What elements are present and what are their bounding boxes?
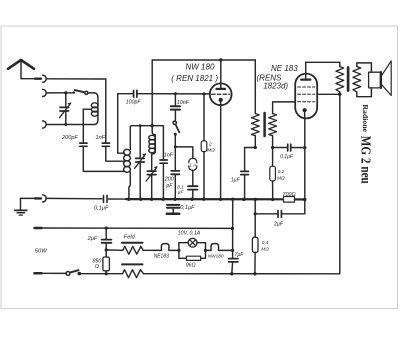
mains pin 1 (35, 227, 42, 230)
node lamp column (190, 198, 193, 201)
node varcap2 bottom (139, 198, 142, 201)
svg-text:pF: pF (165, 183, 173, 189)
svg-text:1 A: 1 A (190, 162, 196, 167)
svg-text:96Ω: 96Ω (186, 263, 196, 269)
tap wire from L1 to 200pF column (83, 108, 91, 110)
node 200pF column (173, 198, 176, 201)
loudspeaker (369, 61, 392, 96)
svg-text:10nF: 10nF (177, 100, 190, 106)
tube U2 NE 183 (RENS 1823d) (295, 62, 317, 118)
node mains column (231, 198, 234, 201)
svg-text:100pF: 100pF (126, 100, 142, 106)
node 0,2M column (271, 198, 274, 201)
wire primary bottom / B+ column (339, 92, 341, 274)
node tube2 cathode return (303, 198, 306, 201)
wire jack1 to 1nF column (46, 78, 106, 80)
heater NE183 (bump) (161, 244, 169, 251)
resistor 2 MOhm (grid leak) (201, 94, 207, 199)
jack J1 (antenna socket, plugged) (35, 75, 46, 82)
chassis cap 0,1uF below bus (167, 205, 179, 214)
resistor 850 Ohm (103, 250, 110, 274)
interstage transformer core (263, 113, 266, 136)
variable capacitor C-feedback (146, 166, 158, 199)
capacitor 2uF (cathode bypass) (255, 211, 305, 218)
svg-text:( REN 1821 ): ( REN 1821 ) (171, 74, 218, 83)
dial lamp bridge (177, 238, 207, 260)
svg-text:MΩ: MΩ (207, 148, 215, 154)
tube U1 NW 180 (REN1821) (210, 60, 232, 199)
svg-text:NE 183: NE 183 (271, 64, 298, 73)
svg-text:0,4: 0,4 (262, 240, 269, 246)
svg-text:NW180: NW180 (208, 253, 224, 258)
svg-text:1µF: 1µF (231, 178, 241, 184)
smoothing choke core bar (122, 263, 143, 265)
switch S2 (173, 121, 179, 147)
coil L2 (detector coil) (124, 126, 153, 200)
node lamp branch (174, 145, 177, 148)
svg-text:1nF: 1nF (96, 135, 106, 141)
node 1uF column (242, 198, 245, 201)
smoothing choke (zigzag on bottom wire) (123, 270, 144, 278)
svg-text:50W: 50W (35, 249, 47, 255)
main ground bus (109, 198, 127, 200)
node feedback junction (151, 124, 154, 127)
svg-text:Ω: Ω (95, 264, 99, 270)
node 10nF branch (174, 92, 177, 95)
variable capacitor C-tune1 (60, 93, 72, 125)
mains column x=232.5 (232, 199, 234, 258)
mains wire 1 (42, 227, 232, 229)
wire tube2 anode to output transformer (306, 62, 340, 66)
wire tube2 cathode down (304, 118, 306, 213)
wire winding1 bottom to 1uF (254, 136, 256, 148)
node varcap1 top (64, 91, 67, 94)
svg-text:2µF: 2µF (273, 221, 284, 227)
node 1nF column (162, 198, 165, 201)
wire tube2 screen to transformer (317, 93, 340, 95)
heater NW180 (bump) (206, 249, 212, 251)
antenna (8, 60, 35, 79)
svg-text:7µF: 7µF (235, 252, 245, 258)
wire jack2 to switch (46, 92, 73, 94)
capacitor 200pF (antenna) (80, 109, 124, 171)
capacitor 100pF (134, 90, 137, 97)
interstage transformer winding 2 (269, 114, 277, 136)
capacitor 7uF (229, 259, 238, 274)
jack J2 (43, 89, 47, 96)
wire 100pF branch down to coil2 tap (118, 94, 125, 154)
field coil zigzag (106, 249, 123, 251)
svg-text:0,1µF: 0,1µF (280, 154, 294, 160)
svg-text:10V, 0,1A: 10V, 0,1A (178, 231, 201, 237)
wire secondary to speaker (357, 63, 372, 72)
capacitor 0,1uF (series in bus) (104, 195, 108, 202)
output transformer secondary (353, 67, 361, 92)
switch S1 (73, 90, 95, 94)
resistor 0,2 MOhm (270, 148, 276, 200)
coil L3 (feedback coil) (149, 126, 156, 171)
svg-text:1nF: 1nF (164, 152, 174, 158)
mains pin 2 (35, 272, 42, 275)
svg-text:2µF: 2µF (87, 236, 98, 242)
node 2Mohm column (202, 198, 205, 201)
svg-text:NW 180: NW 180 (186, 62, 215, 71)
resistor 0,4 MOhm column (252, 199, 258, 273)
svg-text:MΩ: MΩ (261, 247, 269, 253)
node tube1 cathode (219, 198, 222, 201)
node coil2 bottom (127, 198, 130, 201)
coil L1 (antenna coil) (91, 93, 98, 125)
svg-text:200pF: 200pF (61, 135, 78, 141)
svg-text:0,2: 0,2 (278, 169, 285, 175)
wire winding2 bottom node (272, 136, 274, 148)
output transformer primary (336, 67, 344, 92)
svg-text:2: 2 (208, 142, 212, 148)
node 0,4M column (254, 198, 257, 201)
variable capacitor C-tune2 (135, 124, 147, 199)
jack J4 (earth socket, plugged) (21, 195, 47, 202)
svg-text:200: 200 (164, 177, 174, 183)
output transformer core (347, 68, 350, 91)
ground symbol (15, 198, 27, 215)
top anode rail (152, 59, 255, 61)
jack J3 (43, 121, 47, 128)
svg-text:Feld: Feld (124, 234, 136, 240)
svg-text:700Ω: 700Ω (283, 192, 296, 198)
capacitor 1uF (241, 171, 249, 199)
node 2Mohm top (203, 92, 206, 95)
node varcap1 bottom (64, 123, 67, 126)
capacitor 0,1uF (coupling) (273, 144, 305, 151)
svg-text:Radione: Radione (361, 104, 370, 132)
interstage transformer winding 1 (251, 114, 259, 136)
bus wire left (thin) (46, 197, 102, 199)
capacitor 0,1uF (lamp column) (188, 186, 198, 199)
grid wire tube1 (118, 93, 133, 95)
svg-text:MΩ: MΩ (277, 175, 285, 181)
wire winding2 top to tube2 grid (273, 102, 296, 114)
svg-text:MG 2 neu: MG 2 neu (359, 136, 374, 184)
svg-text:NE183: NE183 (154, 254, 170, 260)
bottom wire (79, 273, 122, 275)
wire junction to 1nF column (152, 126, 163, 160)
capacitor 1nF (grid) (160, 160, 167, 199)
capacitor 200pF (grid column) (171, 147, 179, 199)
capacitor 2uF (mains) (102, 228, 112, 250)
field coil core bar (122, 242, 143, 244)
fuse lamp 1A (175, 147, 197, 186)
svg-text:1823d): 1823d) (263, 81, 288, 90)
mains switch (66, 270, 81, 275)
wire jack3 to coil L1 bottom (46, 124, 94, 126)
svg-text:0,1µF: 0,1µF (94, 206, 109, 212)
node tube1 anode (219, 58, 222, 61)
capacitor 10nF (171, 94, 180, 121)
svg-text:0,1µF: 0,1µF (180, 205, 195, 211)
resistor 700 Ohm (in bus) (284, 197, 295, 203)
capacitor 1nF (antenna) (102, 79, 124, 161)
node varcap3 bottom (150, 198, 153, 201)
